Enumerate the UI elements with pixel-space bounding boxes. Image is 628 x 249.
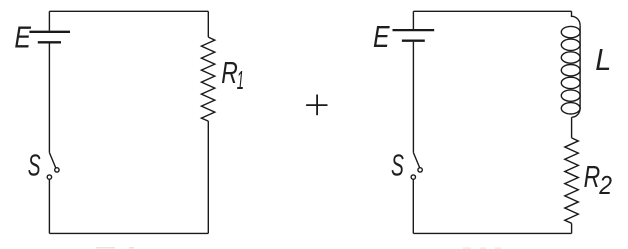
svg-text:R: R [221,55,238,90]
svg-text:L: L [595,43,611,77]
svg-text:1: 1 [237,66,244,95]
svg-text:R: R [584,159,601,194]
svg-text:2: 2 [598,172,612,201]
svg-text:S: S [28,149,41,183]
svg-text:S: S [391,149,404,183]
svg-text:E: E [14,20,31,54]
svg-text:E: E [373,19,390,53]
